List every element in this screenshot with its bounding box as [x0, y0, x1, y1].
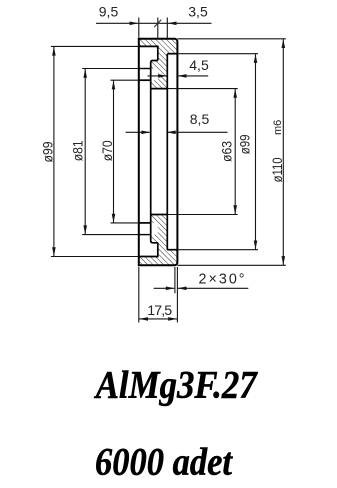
edge web left face bottom — [157, 243, 159, 257]
dimension line ø70 — [113, 80, 115, 223]
svg-text:ø63: ø63 — [219, 141, 234, 162]
edge bore ø63 bottom — [151, 214, 168, 216]
extension line ø99 left bottom — [51, 256, 139, 258]
hatch region rim band bottom-left — [139, 257, 158, 266]
arrowhead 17,5 right — [168, 317, 177, 321]
extension line ø81 top — [82, 68, 139, 70]
hatch region rim band top-left — [139, 39, 158, 47]
svg-text:6000 adet: 6000 adet — [95, 441, 233, 484]
dimension line 17,5 — [139, 318, 178, 320]
svg-text:ø81: ø81 — [70, 140, 85, 161]
dimension 2x30 left shaft — [154, 287, 175, 289]
dimension line top — [96, 22, 212, 24]
edge bore ø70 bottom — [139, 222, 151, 224]
svg-text:ø99: ø99 — [238, 134, 253, 154]
arrowhead 4,5 right — [178, 74, 187, 78]
arrowhead ø81 top — [83, 69, 87, 78]
svg-text:ø110: ø110 — [270, 157, 285, 182]
edge web right face — [166, 54, 168, 250]
hatch region web top — [158, 39, 168, 89]
svg-text:3,5: 3,5 — [188, 4, 208, 20]
extension line ø63 top — [167, 88, 237, 90]
edge ø81 top — [139, 68, 151, 70]
dimension line ø99 right — [255, 54, 257, 250]
extension line 17,5 right — [176, 267, 178, 323]
svg-text:2×30°: 2×30° — [199, 271, 245, 287]
hatch region web bottom — [158, 215, 168, 266]
tick mark web face — [154, 20, 161, 27]
edge bump and inner face x2 — [151, 61, 158, 243]
arrowhead 2x30 right — [178, 287, 187, 291]
arrowhead 9,5 — [130, 22, 139, 26]
hatch region rim band top-right — [167, 39, 177, 54]
extension line web right top — [166, 18, 168, 39]
hatch region bump top — [151, 61, 158, 69]
part outline — [139, 39, 178, 265]
arrowhead ø81 bottom — [83, 225, 87, 234]
extension line web left top — [157, 18, 159, 39]
arrowhead 17,5 left — [139, 317, 148, 321]
arrowhead ø99 right top — [254, 54, 258, 63]
extension line ø70 bottom — [111, 222, 139, 224]
arrowhead ø63 top — [233, 89, 237, 98]
arrowhead 2x30 left — [166, 287, 175, 291]
dimension 8,5 right shaft — [168, 131, 228, 133]
extension line ø70 top — [111, 79, 139, 81]
edge recess floor ø99 right top — [167, 53, 177, 55]
extension line ø99 right top — [177, 53, 258, 55]
edge bore ø70 top — [139, 79, 151, 81]
edge recess floor ø99 left top — [139, 45, 158, 47]
arrowhead 3,5 — [168, 22, 177, 26]
dimension 4,5 left shaft — [148, 75, 167, 77]
dimension 2x30 right shaft — [178, 287, 248, 289]
arrowhead ø110 bottom — [282, 256, 286, 265]
dimension line ø63 — [234, 89, 236, 215]
arrowhead 8,5 right — [167, 131, 176, 135]
extension line ø99 right bottom — [177, 249, 258, 251]
arrowhead 8,5 left — [141, 131, 150, 135]
arrowhead ø70 bottom — [112, 214, 116, 223]
svg-text:ø70: ø70 — [100, 140, 115, 161]
hatch region bump bottom — [151, 235, 158, 243]
hatch region sliver bottom — [151, 215, 158, 223]
svg-text:4,5: 4,5 — [189, 57, 209, 73]
extension line 17,5 left — [138, 267, 140, 323]
dimension line ø81 — [84, 69, 86, 235]
dimension line ø110 — [282, 39, 284, 265]
svg-text:17,5: 17,5 — [147, 303, 172, 319]
svg-text:9,5: 9,5 — [99, 4, 119, 20]
edge recess floor ø99 right bottom — [167, 249, 177, 251]
arrowhead ø110 top — [282, 39, 286, 48]
extension line ø110 bottom — [177, 264, 285, 266]
hatch region sliver top — [151, 80, 158, 88]
hatch region rim band bottom-right — [167, 250, 177, 266]
edge bore ø63 top — [151, 88, 168, 90]
extension line ø81 bottom — [82, 234, 139, 236]
extension line ø110 top — [177, 38, 285, 40]
svg-text:8,5: 8,5 — [190, 111, 210, 127]
dimension 8,5 left shaft — [126, 131, 150, 133]
arrowhead ø99 left top — [52, 47, 56, 56]
extension line ø63 bottom — [167, 214, 237, 216]
arrowhead ø63 bottom — [233, 205, 237, 214]
extension line 9,5 left — [138, 18, 140, 38]
arrowhead 4,5 left — [158, 74, 167, 78]
edge ø81 bottom — [139, 234, 151, 236]
svg-text:m6: m6 — [272, 120, 284, 135]
extension line ø99 left top — [51, 45, 139, 47]
arrowhead ø99 right bottom — [254, 241, 258, 250]
extension line chamfer — [174, 267, 176, 293]
arrowhead ø99 left bottom — [52, 247, 56, 256]
arrowhead ø70 top — [112, 81, 116, 90]
edge web left face top — [157, 46, 159, 61]
svg-text:ø99: ø99 — [40, 142, 55, 163]
dimension 4,5 right shaft — [178, 75, 208, 77]
dimension line ø99 left — [53, 46, 55, 256]
svg-text:AlMg3F.27: AlMg3F.27 — [93, 364, 258, 407]
edge recess floor ø99 left bottom — [139, 256, 158, 258]
